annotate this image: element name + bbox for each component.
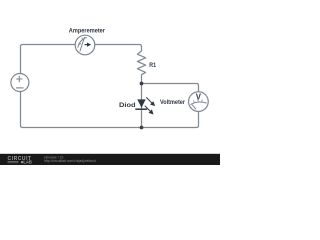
svg-text:V: V — [196, 92, 202, 101]
svg-text:Diod: Diod — [119, 102, 136, 109]
svg-text:■LAB: ■LAB — [21, 160, 32, 165]
svg-text:Amperemeter: Amperemeter — [69, 27, 105, 34]
svg-text:R1: R1 — [149, 62, 156, 69]
svg-text:Voltmeter: Voltmeter — [160, 99, 185, 106]
svg-text:http://circuitlab.com/c/ejadjv: http://circuitlab.com/c/ejadjvbfdsxd — [44, 159, 96, 163]
